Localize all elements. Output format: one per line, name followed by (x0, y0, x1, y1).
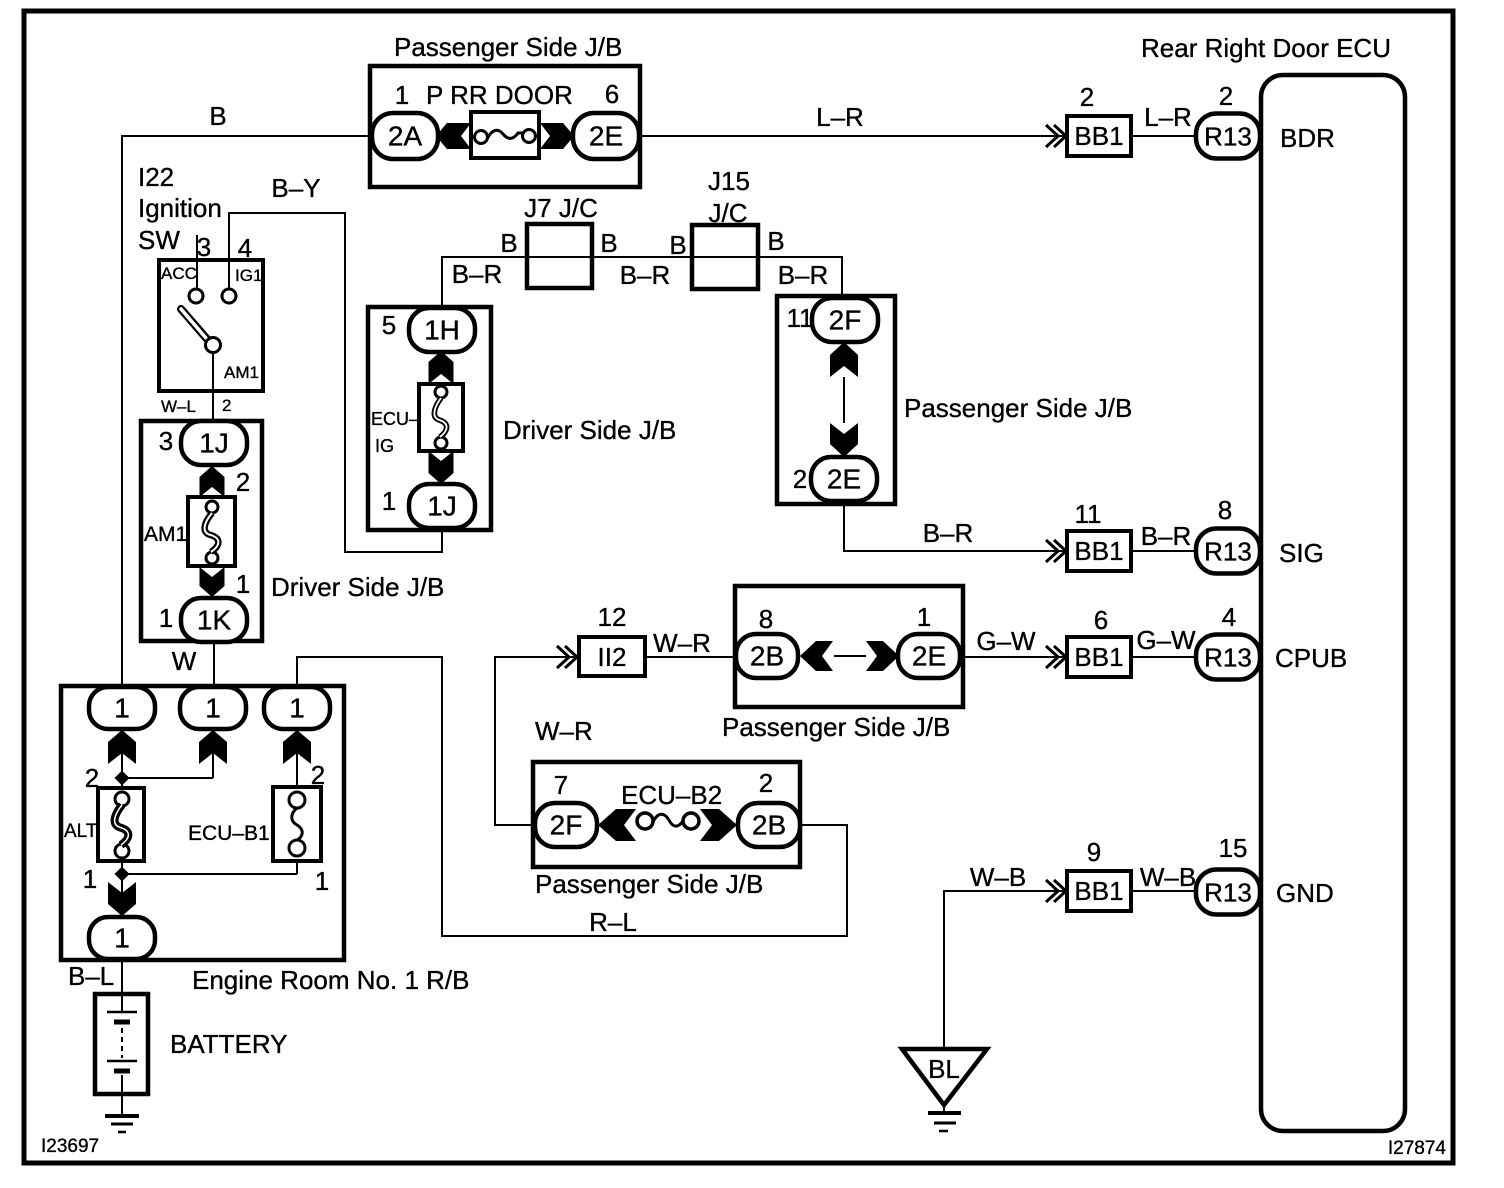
svg-text:2E: 2E (589, 121, 623, 152)
svg-text:B–R: B–R (620, 260, 671, 290)
svg-text:Ignition: Ignition (138, 193, 222, 223)
svg-text:B–R: B–R (923, 518, 974, 548)
svg-text:W–R: W–R (535, 716, 593, 746)
svg-text:BL: BL (928, 1054, 960, 1084)
svg-text:1: 1 (917, 602, 931, 632)
svg-text:3: 3 (159, 426, 173, 456)
svg-text:1: 1 (114, 693, 130, 724)
svg-text:6: 6 (1094, 605, 1108, 635)
svg-text:I23697: I23697 (41, 1136, 99, 1157)
svg-text:2: 2 (759, 768, 773, 798)
svg-text:2B: 2B (750, 641, 784, 672)
svg-text:3: 3 (197, 232, 211, 262)
svg-text:1: 1 (289, 693, 305, 724)
svg-text:J7 J/C: J7 J/C (524, 193, 598, 223)
svg-text:J15: J15 (708, 166, 750, 196)
svg-text:SW: SW (138, 225, 180, 255)
svg-text:Engine Room No. 1 R/B: Engine Room No. 1 R/B (192, 965, 469, 995)
svg-text:L–R: L–R (1144, 102, 1192, 132)
svg-text:1: 1 (395, 80, 409, 110)
svg-text:1: 1 (205, 693, 221, 724)
svg-text:B: B (600, 228, 617, 258)
svg-text:ECU–B2: ECU–B2 (621, 780, 722, 810)
svg-text:BATTERY: BATTERY (170, 1029, 288, 1059)
svg-text:GND: GND (1276, 878, 1334, 908)
svg-text:Passenger Side J/B: Passenger Side J/B (722, 712, 950, 742)
svg-text:2: 2 (311, 760, 325, 790)
svg-text:BB1: BB1 (1074, 876, 1123, 906)
svg-text:1: 1 (114, 923, 130, 954)
svg-text:I22: I22 (138, 162, 174, 192)
svg-text:9: 9 (1087, 837, 1101, 867)
svg-text:P RR DOOR: P RR DOOR (426, 80, 573, 110)
svg-text:B–Y: B–Y (271, 173, 320, 203)
svg-text:11: 11 (787, 303, 814, 333)
svg-text:B–R: B–R (452, 259, 503, 289)
svg-text:8: 8 (1218, 495, 1232, 525)
svg-text:CPUB: CPUB (1275, 643, 1347, 673)
svg-text:Passenger Side J/B: Passenger Side J/B (535, 869, 763, 899)
svg-text:1H: 1H (424, 315, 460, 346)
svg-text:W–L: W–L (161, 397, 196, 416)
svg-text:W–R: W–R (653, 628, 711, 658)
svg-text:6: 6 (605, 79, 619, 109)
svg-text:11: 11 (1075, 499, 1102, 529)
svg-text:7: 7 (554, 770, 568, 800)
svg-text:Passenger Side J/B: Passenger Side J/B (904, 393, 1132, 423)
svg-text:2F: 2F (829, 305, 862, 336)
svg-text:G–W: G–W (976, 626, 1036, 656)
svg-text:R13: R13 (1204, 122, 1252, 152)
svg-text:IG1: IG1 (235, 266, 262, 285)
svg-text:G–W: G–W (1136, 625, 1196, 655)
svg-text:B: B (500, 228, 517, 258)
svg-text:BB1: BB1 (1074, 121, 1123, 151)
svg-text:Passenger Side J/B: Passenger Side J/B (394, 32, 622, 62)
svg-text:ALT: ALT (64, 821, 98, 842)
svg-text:ACC: ACC (161, 264, 197, 283)
svg-text:B: B (767, 226, 784, 256)
svg-text:BDR: BDR (1280, 123, 1335, 153)
svg-text:2: 2 (1219, 81, 1233, 111)
svg-text:R–L: R–L (589, 907, 637, 937)
svg-text:B: B (669, 230, 686, 260)
svg-text:2B: 2B (752, 810, 786, 841)
svg-text:1J: 1J (427, 491, 457, 522)
svg-text:1: 1 (83, 864, 97, 894)
svg-text:2E: 2E (827, 464, 861, 495)
svg-text:IG: IG (375, 436, 394, 456)
svg-text:2: 2 (1080, 82, 1094, 112)
svg-text:12: 12 (598, 602, 627, 632)
svg-text:J/C: J/C (709, 198, 748, 228)
svg-text:1: 1 (315, 866, 329, 896)
svg-text:W–B: W–B (1140, 862, 1196, 892)
svg-text:1: 1 (236, 569, 250, 599)
svg-text:4: 4 (1222, 602, 1236, 632)
svg-text:2F: 2F (550, 810, 583, 841)
svg-text:2E: 2E (912, 641, 946, 672)
svg-text:R13: R13 (1204, 643, 1252, 673)
svg-text:II2: II2 (598, 642, 627, 672)
svg-text:Rear Right Door ECU: Rear Right Door ECU (1141, 33, 1391, 63)
svg-text:I27874: I27874 (1388, 1138, 1447, 1159)
svg-text:1: 1 (159, 603, 173, 633)
svg-text:L–R: L–R (816, 102, 864, 132)
svg-text:SIG: SIG (1279, 538, 1324, 568)
svg-text:1K: 1K (197, 605, 232, 636)
svg-text:Driver Side J/B: Driver Side J/B (503, 415, 676, 445)
svg-text:5: 5 (382, 310, 396, 340)
svg-text:2: 2 (793, 464, 807, 494)
svg-text:ECU–B1: ECU–B1 (188, 822, 270, 845)
svg-text:2: 2 (222, 396, 231, 415)
svg-text:B–L: B–L (68, 961, 114, 991)
svg-text:Driver Side J/B: Driver Side J/B (271, 572, 444, 602)
svg-text:R13: R13 (1204, 537, 1252, 567)
svg-text:AM1: AM1 (224, 363, 259, 382)
svg-text:2A: 2A (388, 121, 423, 152)
svg-text:2: 2 (236, 467, 250, 497)
svg-text:B–R: B–R (778, 260, 829, 290)
svg-text:15: 15 (1219, 833, 1248, 863)
svg-text:W: W (172, 646, 197, 676)
svg-text:4: 4 (238, 233, 252, 263)
svg-text:ECU–: ECU– (371, 409, 419, 429)
svg-text:1: 1 (382, 486, 396, 516)
svg-text:8: 8 (759, 604, 773, 634)
svg-text:B–R: B–R (1141, 521, 1192, 551)
svg-text:W–B: W–B (970, 862, 1026, 892)
svg-text:BB1: BB1 (1074, 536, 1123, 566)
svg-text:2: 2 (85, 763, 99, 793)
svg-text:R13: R13 (1204, 878, 1252, 908)
svg-text:B: B (209, 101, 226, 131)
svg-text:BB1: BB1 (1074, 642, 1123, 672)
svg-text:1J: 1J (199, 428, 229, 459)
svg-text:AM1: AM1 (144, 523, 187, 546)
